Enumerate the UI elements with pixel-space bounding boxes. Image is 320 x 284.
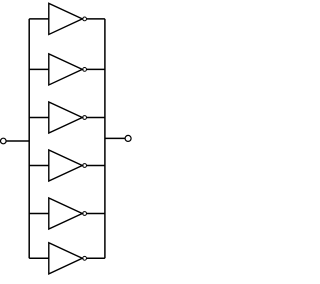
wire input terminal to left bus: [6, 140, 29, 142]
wire right bus to output terminal: [105, 137, 125, 139]
inverter U6: [49, 243, 87, 274]
left bus wire: [28, 19, 30, 258]
wire left bus to U1 input: [29, 18, 49, 20]
wire left bus to U5 input: [29, 213, 49, 215]
wire U4 output to right bus: [87, 165, 105, 167]
inverter U5: [49, 198, 87, 229]
wire U1 output to right bus: [87, 18, 105, 20]
right bus wire: [104, 19, 106, 258]
wire U6 output to right bus: [87, 257, 105, 259]
inverter U4: [49, 150, 87, 181]
input terminal: [1, 138, 7, 144]
wire left bus to U6 input: [29, 257, 49, 259]
inverter U1: [49, 3, 87, 34]
wire U2 output to right bus: [87, 68, 105, 70]
wire left bus to U4 input: [29, 165, 49, 167]
wire left bus to U3 input: [29, 117, 49, 119]
wire left bus to U2 input: [29, 68, 49, 70]
inverter U3: [49, 102, 87, 133]
wire U3 output to right bus: [87, 117, 105, 119]
wire U5 output to right bus: [87, 213, 105, 215]
inverter U2: [49, 54, 87, 85]
output terminal: [125, 135, 131, 141]
